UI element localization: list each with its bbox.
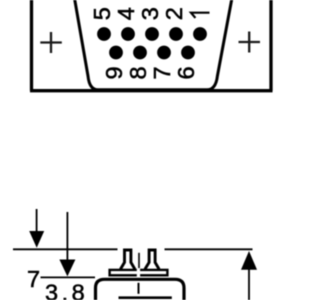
svg-text:7: 7 bbox=[149, 66, 175, 79]
dim arrow 3.8 stem bbox=[66, 212, 68, 262]
pin 4 bbox=[121, 27, 135, 41]
dimension line top (side view) left segment bbox=[13, 248, 118, 250]
plate centerline gap bbox=[137, 268, 140, 271]
screw hole right (+) bbox=[239, 32, 261, 53]
dim arrow 7 stem bbox=[36, 209, 38, 234]
pin 1 bbox=[193, 27, 207, 41]
pin 5 bbox=[97, 27, 111, 41]
svg-text:6: 6 bbox=[173, 66, 199, 79]
dim arrow 7 head bbox=[29, 231, 44, 248]
D-sub shell trapezoid bbox=[73, 0, 233, 90]
solder post left bbox=[120, 250, 134, 269]
svg-text:3: 3 bbox=[137, 7, 163, 20]
dimension line top right segment bbox=[165, 248, 253, 250]
svg-text:8: 8 bbox=[125, 66, 151, 79]
svg-text:7: 7 bbox=[27, 266, 40, 292]
label 1 bbox=[191, 13, 210, 18]
svg-text:9: 9 bbox=[101, 66, 127, 79]
solder post right bbox=[145, 250, 159, 269]
mounting plate bbox=[110, 270, 168, 275]
pin 2 bbox=[169, 27, 183, 41]
dimension line 3.8 level bbox=[41, 276, 96, 278]
svg-text:3.8: 3.8 bbox=[45, 280, 88, 300]
pin 3 bbox=[145, 27, 159, 41]
pin 7 bbox=[157, 46, 171, 60]
dim arrow up (right) head bbox=[241, 251, 257, 270]
connector body (side view, bottom cropped) bbox=[96, 279, 185, 300]
screw hole left (+) bbox=[40, 32, 62, 53]
dim arrow up stem bbox=[248, 269, 250, 300]
dim arrow 3.8 head bbox=[59, 260, 75, 277]
centerline dash inside body bbox=[138, 283, 140, 294]
connector flange (front view, top cropped) bbox=[30, 0, 273, 91]
svg-text:5: 5 bbox=[89, 7, 115, 20]
pin 8 bbox=[133, 46, 147, 60]
svg-text:2: 2 bbox=[161, 7, 187, 20]
inner cavity line bbox=[119, 296, 172, 299]
centerline dash between posts bbox=[138, 253, 140, 268]
pin 9 bbox=[109, 46, 123, 60]
svg-text:4: 4 bbox=[113, 7, 139, 20]
pin 6 bbox=[181, 46, 195, 60]
